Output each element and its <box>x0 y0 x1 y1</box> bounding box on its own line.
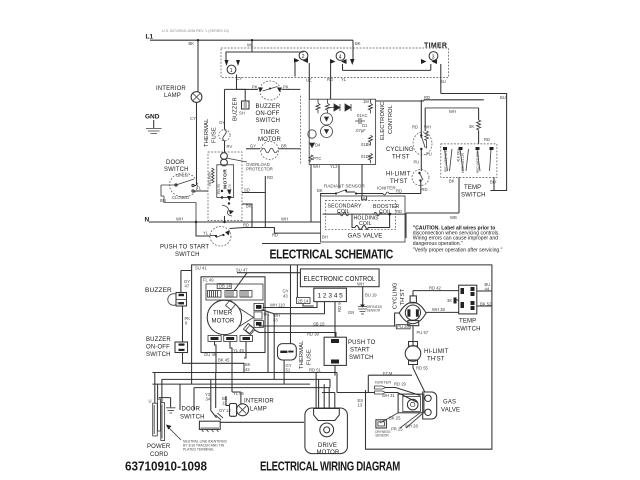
svg-text:RD: RD <box>484 137 490 142</box>
wire N bus <box>149 221 321 223</box>
junction dots <box>195 39 391 223</box>
svg-text:WH: WH <box>357 282 364 287</box>
svg-text:BU 19: BU 19 <box>365 293 377 298</box>
wire BK drop right <box>352 40 354 62</box>
motor centrifugal switch <box>221 153 228 160</box>
svg-text:LAMP: LAMP <box>250 407 267 413</box>
svg-text:GAS: GAS <box>443 400 456 406</box>
svg-text:TIMER: TIMER <box>260 130 280 136</box>
svg-text:L1: L1 <box>146 34 154 41</box>
svg-text:ELECTRONIC CONTROL: ELECTRONIC CONTROL <box>304 274 376 283</box>
radiant sensor / igniter row <box>317 184 421 201</box>
svg-text:BK: BK <box>189 41 195 46</box>
svg-text:01AC: 01AC <box>357 113 367 118</box>
svg-text:WH 28: WH 28 <box>405 424 418 429</box>
svg-text:BUZZER: BUZZER <box>256 104 281 110</box>
timer cam 4 <box>327 52 355 100</box>
svg-text:3K: 3K <box>447 298 452 303</box>
svg-text:BK 52: BK 52 <box>480 302 492 307</box>
timer right column <box>246 289 289 335</box>
svg-text:BUZZER: BUZZER <box>233 97 239 121</box>
door switch (wiring) <box>180 373 304 433</box>
svg-text:BK: BK <box>246 204 252 209</box>
timer bottom blocks <box>208 336 253 342</box>
svg-text:CORD: CORD <box>150 452 169 458</box>
resistor 3K <box>477 120 481 131</box>
svg-text:WH: WH <box>449 109 456 114</box>
timer dashed box <box>221 43 449 78</box>
svg-text:PR 25: PR 25 <box>391 427 403 432</box>
wire EC to right top <box>376 100 424 102</box>
svg-text:RD: RD <box>327 77 333 82</box>
svg-text:BR: BR <box>281 144 287 149</box>
svg-text:SENSOR: SENSOR <box>375 434 389 438</box>
svg-text:DRIVE: DRIVE <box>318 443 337 449</box>
svg-text:13: 13 <box>358 403 363 408</box>
wire lamp down <box>196 102 198 185</box>
thermal fuse (wiring) <box>278 340 313 384</box>
svg-text:CY: CY <box>237 76 243 81</box>
svg-text:4: 4 <box>339 55 342 61</box>
thermal fuse symbol <box>219 130 230 141</box>
svg-text:VALVE: VALVE <box>441 408 460 414</box>
wire WL drop <box>251 40 253 52</box>
svg-text:SWITCH: SWITCH <box>256 118 281 124</box>
svg-text:RD: RD <box>267 175 273 180</box>
svg-text:THERMAL: THERMAL <box>299 340 305 369</box>
temp switch (wiring) <box>447 282 492 333</box>
right-top feeder box <box>424 94 507 191</box>
svg-text:N: N <box>145 217 150 224</box>
svg-text:THERMAL: THERMAL <box>204 118 210 147</box>
timer cam 1 <box>225 52 253 81</box>
buzzer on-off switch <box>246 88 258 90</box>
svg-text:SB 15: SB 15 <box>313 322 325 327</box>
svg-text:INTERIOR: INTERIOR <box>244 399 274 405</box>
drive motor (wiring) <box>305 373 348 456</box>
svg-text:FUSE: FUSE <box>212 127 218 143</box>
svg-text:ELECTRONIC: ELECTRONIC <box>380 102 386 140</box>
svg-text:TEMP: TEMP <box>464 185 481 191</box>
wire to hi-limit <box>412 326 414 346</box>
svg-text:MOTOR: MOTOR <box>212 319 235 325</box>
timer cam 2 <box>252 51 312 99</box>
temp switch (schematic) <box>406 144 497 238</box>
svg-text:LAMP: LAMP <box>164 93 181 99</box>
motor inner box <box>217 165 234 198</box>
timer motor coil <box>246 148 260 150</box>
svg-text:DOOR: DOOR <box>166 160 185 166</box>
wire top bus <box>192 265 492 449</box>
svg-text:YL 95: YL 95 <box>233 391 244 396</box>
svg-text:12: 12 <box>222 401 227 406</box>
svg-text:PU 20: PU 20 <box>397 324 409 329</box>
interior lamp (wiring) <box>222 379 274 416</box>
svg-text:RD: RD <box>412 125 418 130</box>
svg-text:UE: UE <box>306 78 312 83</box>
svg-text:DOOR: DOOR <box>182 407 201 413</box>
motor windings <box>212 168 215 183</box>
wire CY down to fuse <box>225 75 247 130</box>
svg-text:WH: WH <box>176 217 183 222</box>
svg-text:TH'ST: TH'ST <box>400 288 406 305</box>
svg-text:RD: RD <box>422 187 428 192</box>
svg-text:GU 46: GU 46 <box>204 352 217 357</box>
svg-text:SH: SH <box>239 111 245 116</box>
timer top blocks <box>208 291 253 298</box>
svg-text:PROTECTOR: PROTECTOR <box>246 167 273 172</box>
svg-text:ELECTRICAL WIRING DIAGRAM: ELECTRICAL WIRING DIAGRAM <box>260 459 400 474</box>
wire RD9 <box>334 302 336 338</box>
motor dashed box <box>208 152 242 221</box>
svg-text:FUSE: FUSE <box>307 349 313 365</box>
svg-text:TH'ST: TH'ST <box>390 179 408 185</box>
svg-text:RV: RV <box>227 144 233 149</box>
wire push start RD to gas valve <box>230 228 321 234</box>
svg-text:POWER: POWER <box>147 444 171 450</box>
svg-text:12345: 12345 <box>318 293 345 300</box>
svg-text:WH 31: WH 31 <box>382 393 395 398</box>
svg-text:WH: WH <box>313 164 320 169</box>
motor start winding curve <box>222 205 232 216</box>
svg-text:BUZZER: BUZZER <box>145 287 172 294</box>
svg-text:D4: D4 <box>315 143 321 148</box>
feeder wires into motor <box>316 373 335 409</box>
svg-text:3: 3 <box>432 55 435 61</box>
electronic control (wiring) <box>300 269 379 287</box>
svg-text:YL3: YL3 <box>330 164 338 169</box>
svg-text:RD: RD <box>396 209 402 214</box>
wire BK drop to interior lamp <box>197 40 199 91</box>
svg-text:BK 25: BK 25 <box>389 416 401 421</box>
wire door area to push-start <box>196 222 210 236</box>
svg-text:SU 47: SU 47 <box>236 268 248 273</box>
svg-text:RD 39: RD 39 <box>307 331 320 336</box>
wire BU from door switch to N <box>164 196 196 222</box>
svg-text:SWITCH: SWITCH <box>461 193 486 199</box>
timer outer box <box>201 277 265 353</box>
wire SU47 diagonal <box>234 273 247 291</box>
svg-text:RD-90: RD-90 <box>217 184 221 194</box>
svg-text:3K: 3K <box>469 124 474 129</box>
svg-text:BUZZER: BUZZER <box>146 337 171 343</box>
svg-text:MOTOR: MOTOR <box>258 137 281 143</box>
coils wire <box>323 213 406 215</box>
svg-text:BU: BU <box>440 79 446 84</box>
svg-text:ON-OFF: ON-OFF <box>146 345 170 351</box>
wire GY43 long vertical <box>274 265 290 380</box>
svg-text:TEMP: TEMP <box>459 319 476 325</box>
wire GY47 buzzer feed <box>181 271 192 294</box>
svg-text:PU: PU <box>414 160 420 165</box>
cycling thermostat (schematic) <box>386 100 432 171</box>
svg-text:41K DEL: 41K DEL <box>457 148 461 162</box>
wire L1 bus <box>150 39 353 41</box>
svg-text:SWITCH: SWITCH <box>175 252 200 258</box>
door switch contacts <box>161 179 194 185</box>
timer motor circle <box>207 300 241 334</box>
svg-text:GND: GND <box>145 114 160 121</box>
push to start (wiring) <box>324 337 376 375</box>
svg-text:TIMER: TIMER <box>213 311 233 317</box>
svg-text:34: 34 <box>206 397 211 402</box>
svg-text:ON-OFF: ON-OFF <box>256 111 280 117</box>
svg-text:CLOSED: CLOSED <box>172 195 189 200</box>
svg-text:DB 14: DB 14 <box>219 284 231 289</box>
svg-text:WH: WH <box>362 196 367 200</box>
svg-text:NO1: NO1 <box>177 302 184 306</box>
wire door sw to motor <box>194 186 208 192</box>
svg-text:PUSH TO: PUSH TO <box>348 340 376 346</box>
svg-text:U.S. 63710910-1098 REV. 1 (SER: U.S. 63710910-1098 REV. 1 (SERIES 10) <box>162 29 229 33</box>
svg-text:BU: BU <box>490 180 496 185</box>
svg-text:WL: WL <box>247 43 254 48</box>
svg-text:PUSH TO START: PUSH TO START <box>160 245 209 251</box>
svg-text:43: 43 <box>283 294 288 299</box>
svg-text:SWITCH: SWITCH <box>349 355 374 361</box>
svg-text:ELECTRICAL SCHEMATIC: ELECTRICAL SCHEMATIC <box>270 247 394 262</box>
svg-text:YL: YL <box>203 231 209 236</box>
svg-text:SWITCH: SWITCH <box>180 415 205 421</box>
svg-text:WH: WH <box>424 125 431 130</box>
svg-text:CY: CY <box>190 116 196 121</box>
svg-text:1M: 1M <box>363 99 369 104</box>
svg-text:"Verify proper operation after: "Verify proper operation after servicing… <box>413 248 503 254</box>
svg-text:PU 57: PU 57 <box>417 330 429 335</box>
svg-text:BK: BK <box>355 41 361 46</box>
svg-text:47: 47 <box>185 284 190 289</box>
svg-text:CONTROL: CONTROL <box>388 104 394 134</box>
svg-text:51: 51 <box>286 368 291 373</box>
svg-text:WH: WH <box>281 217 288 222</box>
svg-text:2B 14: 2B 14 <box>298 298 310 303</box>
wires timer to right <box>263 302 317 308</box>
svg-text:IGNITER: IGNITER <box>377 186 396 191</box>
svg-text:.07μF: .07μF <box>355 128 366 133</box>
svg-text:GAS VALVE: GAS VALVE <box>348 233 383 240</box>
svg-text:SD: SD <box>244 188 250 193</box>
svg-text:GY: GY <box>219 120 225 125</box>
svg-text:CYCLING: CYCLING <box>386 147 414 153</box>
svg-text:OPEN: OPEN <box>176 173 188 178</box>
wire RD down from motor right <box>264 176 266 228</box>
svg-text:HI-LIMIT: HI-LIMIT <box>424 349 449 355</box>
svg-text:HI-LIMIT: HI-LIMIT <box>386 172 411 178</box>
svg-text:dangerous operation.": dangerous operation." <box>413 241 463 247</box>
svg-text:BK 45: BK 45 <box>218 358 230 363</box>
wire lower RD <box>262 243 321 245</box>
svg-text:RD 42: RD 42 <box>429 286 442 291</box>
svg-text:BU: BU <box>500 95 506 100</box>
svg-text:RD 9: RD 9 <box>337 302 342 312</box>
svg-text:IGNITER: IGNITER <box>375 380 391 385</box>
svg-text:RD: RD <box>272 233 278 238</box>
svg-text:GN: GN <box>348 310 354 315</box>
svg-text:RADIANT SENSOR: RADIANT SENSOR <box>324 184 365 189</box>
wire motor right SD <box>242 192 265 194</box>
hi-limit thst (wiring) <box>405 342 449 393</box>
svg-text:WB: WB <box>450 215 457 220</box>
svg-text:YL: YL <box>196 186 202 191</box>
svg-text:START: START <box>350 348 370 354</box>
svg-text:42: 42 <box>245 367 250 372</box>
wire cam4 to cam3 <box>343 69 431 71</box>
svg-text:FL 49: FL 49 <box>203 278 214 283</box>
svg-text:TIMER: TIMER <box>424 43 447 50</box>
svg-text:TH'ST: TH'ST <box>392 155 410 161</box>
wire PK8 <box>182 306 184 342</box>
wires timer bottom drops <box>215 342 217 373</box>
svg-text:RD 29: RD 29 <box>394 382 407 387</box>
svg-text:01Dk: 01Dk <box>361 154 372 159</box>
svg-text:RD: RD <box>396 189 402 194</box>
svg-text:RD 55: RD 55 <box>416 366 429 371</box>
gas valve (schematic) <box>321 196 405 242</box>
svg-text:INTERIOR: INTERIOR <box>156 86 186 92</box>
buzzer symbol <box>242 101 250 109</box>
svg-text:YL 49: YL 49 <box>233 348 244 353</box>
svg-text:01Bk: 01Bk <box>361 142 371 147</box>
caution note <box>413 225 503 253</box>
svg-text:GY: GY <box>250 144 256 149</box>
svg-text:BH: BH <box>322 235 328 240</box>
svg-text:BK: BK <box>449 179 455 184</box>
electronic control box (schematic) <box>300 96 394 165</box>
svg-text:RD: RD <box>424 95 430 100</box>
svg-text:PLATED TERMINAL: PLATED TERMINAL <box>183 448 214 452</box>
igniter connector (wiring) <box>375 380 421 403</box>
cycling thst (wiring) <box>393 282 459 329</box>
svg-text:SWITCH: SWITCH <box>146 352 171 358</box>
motor contacts <box>227 190 232 202</box>
svg-text:YL: YL <box>341 77 347 82</box>
dryness connector (wiring) <box>375 420 390 438</box>
wire EC bottom drops <box>311 165 362 223</box>
svg-text:SENSOR: SENSOR <box>367 309 381 313</box>
svg-text:WH 110: WH 110 <box>270 303 285 308</box>
wire BK45 <box>183 353 245 373</box>
svg-text:63710910-1098: 63710910-1098 <box>125 460 207 474</box>
svg-text:MOTOR: MOTOR <box>317 450 340 456</box>
dryness sensor drop <box>362 287 364 305</box>
lower wire buses <box>153 372 338 374</box>
svg-text:SU 41: SU 41 <box>195 266 207 271</box>
svg-text:RD: RD <box>243 223 249 228</box>
svg-text:U: U <box>149 399 152 404</box>
power cord <box>147 373 228 459</box>
timer cam 3 <box>421 52 446 94</box>
svg-text:HELPER: HELPER <box>208 172 212 186</box>
svg-text:2: 2 <box>302 54 305 60</box>
svg-text:1: 1 <box>230 68 233 74</box>
svg-text:PK: PK <box>252 85 258 90</box>
svg-text:PU: PU <box>426 152 432 157</box>
svg-text:BU: BU <box>160 198 166 203</box>
svg-text:CYCLING: CYCLING <box>393 282 399 309</box>
svg-text:SWITCH: SWITCH <box>456 327 481 333</box>
EC internals <box>308 99 373 163</box>
svg-text:RD 51: RD 51 <box>309 368 322 373</box>
svg-text:PK: PK <box>283 85 289 90</box>
gas valve (wiring) <box>380 392 460 432</box>
timer inner connector box <box>206 284 263 300</box>
hi-limit thermostat (schematic) <box>386 170 429 194</box>
svg-text:TH'ST: TH'ST <box>427 357 445 363</box>
svg-text:PTC: PTC <box>313 156 321 161</box>
svg-text:WH 38: WH 38 <box>432 307 445 312</box>
svg-text:44: 44 <box>485 287 490 292</box>
svg-text:BK: BK <box>317 188 323 193</box>
wire motor bottom to N <box>224 216 226 222</box>
